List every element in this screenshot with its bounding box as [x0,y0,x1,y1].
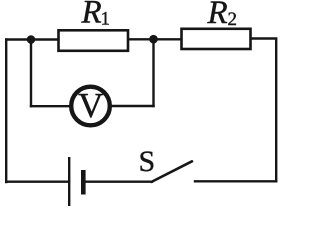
node A junction dot left [27,35,36,44]
wire: R2 to top-right corner and right vertical [252,39,277,182]
wire: R1 to R2 through node B [129,38,181,40]
resistor R2 body [182,29,251,49]
svg-text:R: R [207,0,228,31]
node B junction dot right [149,35,158,44]
svg-text:V: V [78,86,103,125]
svg-text:1: 1 [101,9,111,30]
wire: left vertical [5,40,7,183]
wire: voltmeter branch right horizontal [111,105,154,107]
wire: voltmeter branch right vertical to node B [152,39,154,106]
switch S blade (diagonal) [152,161,193,182]
wire: voltmeter branch left horizontal [31,105,70,107]
resistor R1 body [59,30,129,51]
voltmeter U1 circle [71,87,110,126]
wire: top-left from corner to R1 [6,38,57,40]
wire: switch right contact to bottom-right corner [195,180,276,182]
battery short thick plate (negative) [81,170,86,195]
svg-text:S: S [139,145,156,178]
battery long plate (positive) [68,157,70,206]
wire: voltmeter branch left vertical from node A [30,40,32,107]
wire: bottom-left to battery [6,180,69,182]
svg-text:R: R [81,0,102,31]
svg-text:2: 2 [228,9,238,30]
wire: battery to switch [85,180,152,182]
